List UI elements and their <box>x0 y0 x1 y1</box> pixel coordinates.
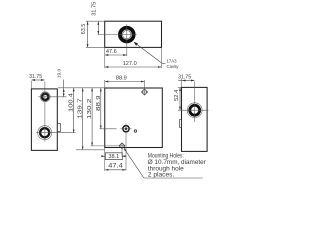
dim 52.4 vertical <box>179 88 181 110</box>
svg-text:Ø 10.7mm, diameter: Ø 10.7mm, diameter <box>148 160 206 166</box>
svg-text:Cavity: Cavity <box>167 64 180 69</box>
left view outline <box>31 89 57 150</box>
right view vertical centerline <box>194 82 196 123</box>
dim 19.0 (top edge to circle center) <box>63 80 65 97</box>
extension front left edge down <box>104 148 106 171</box>
svg-text:31.75: 31.75 <box>92 2 98 16</box>
extension boss bottom down <box>126 45 128 56</box>
boss centerline vertical <box>126 24 128 45</box>
left view top circle <box>40 92 50 102</box>
left view tag notch <box>57 124 60 132</box>
extension right edge down <box>161 48 163 69</box>
svg-text:100.4: 100.4 <box>69 92 75 112</box>
dim 100.4 vertical <box>73 88 75 133</box>
dim 31.75 (left view, edge to top circle) <box>32 79 45 81</box>
svg-text:31.75: 31.75 <box>178 75 191 81</box>
left view bottom circle horizontal centerline <box>36 132 75 134</box>
extension bottom edge left <box>86 46 104 48</box>
extension bottom hole down <box>121 149 123 157</box>
svg-text:139.7: 139.7 <box>78 98 84 119</box>
extension right view left edge up <box>181 79 183 87</box>
port small circle <box>134 130 136 132</box>
svg-text:31.75: 31.75 <box>29 74 42 80</box>
front view outline <box>105 88 163 148</box>
dim 139.7 vertical <box>82 88 84 150</box>
left view vertical centerline <box>44 82 46 142</box>
dim 47.6 (left edge to boss center) <box>105 54 127 56</box>
extension top edge left <box>86 20 104 22</box>
top reference extension line between views <box>58 87 105 89</box>
svg-text:38.1: 38.1 <box>108 154 119 160</box>
dim 31.75 (top view, top edge to boss center) <box>97 21 99 34</box>
extension top hole up <box>144 80 146 89</box>
dim 47.4 <box>105 169 126 171</box>
boss circle C1 (cavity) <box>120 28 134 42</box>
right view outline <box>182 87 208 151</box>
svg-text:52.4: 52.4 <box>174 89 180 101</box>
right view horizontal centerline <box>178 109 209 111</box>
top view outline <box>105 21 162 47</box>
svg-text:19.0: 19.0 <box>56 69 62 79</box>
boss centerline horizontal <box>98 34 137 36</box>
svg-text:127.0: 127.0 <box>123 61 137 67</box>
svg-text:47.6: 47.6 <box>106 49 117 55</box>
extension bottom edge for 139.7 <box>76 149 104 151</box>
dim 31.75 (right view, edge to circle) <box>178 80 194 82</box>
extension port left <box>99 128 116 130</box>
extension left view left edge up <box>30 81 32 89</box>
left view top circle horizontal centerline <box>38 96 66 98</box>
svg-text:63.5: 63.5 <box>81 24 87 35</box>
extension right view top edge left <box>178 86 182 88</box>
right view tag notch <box>180 120 182 128</box>
dim 130.2 vertical <box>91 88 93 146</box>
dim 63.5 (top view height) <box>87 21 89 47</box>
extension left edge down <box>104 48 106 69</box>
port bullseye P1 <box>123 126 129 132</box>
svg-text:88.9: 88.9 <box>116 75 127 81</box>
svg-text:2 places.: 2 places. <box>148 173 175 179</box>
svg-text:through hole: through hole <box>148 166 185 172</box>
svg-text:88.9: 88.9 <box>96 95 102 111</box>
extension front left edge up <box>104 80 106 88</box>
left view bottom circle <box>38 126 52 140</box>
note mounting holes <box>148 154 206 179</box>
svg-text:17A3: 17A3 <box>167 59 178 64</box>
svg-text:47.4: 47.4 <box>108 164 123 170</box>
dim 38.1 boxed (basic) <box>101 153 126 160</box>
extension bottom hole left <box>91 145 119 147</box>
port centerline vertical <box>125 124 127 171</box>
mounting hole bottom <box>119 143 125 149</box>
svg-text:Mounting Holes:: Mounting Holes: <box>148 154 184 160</box>
leader to cavity note <box>134 42 166 64</box>
leader mounting holes <box>124 148 203 178</box>
port centerline horizontal <box>121 128 132 130</box>
dim 88.9 vertical <box>100 88 102 129</box>
dim 127.0 (top view width) <box>105 66 161 68</box>
svg-text:130.2: 130.2 <box>87 99 93 120</box>
mounting hole top <box>141 89 148 96</box>
right view circle <box>187 103 202 118</box>
dim 88.9 horizontal (front top) <box>105 81 144 83</box>
